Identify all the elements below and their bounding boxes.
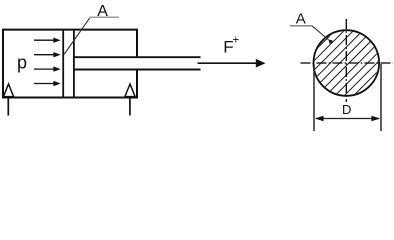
dimension arrow left — [315, 116, 324, 121]
vertical centerline (dash-dot) — [345, 19, 347, 102]
svg-text:A: A — [296, 11, 306, 28]
area label A (circle): leader — [312, 26, 331, 42]
pressure arrow 2 — [34, 52, 61, 57]
area label A (circle): underline — [290, 25, 312, 27]
svg-text:D: D — [342, 102, 351, 117]
right support shaft — [129, 97, 131, 115]
svg-text:p: p — [17, 53, 27, 73]
left support shaft — [7, 97, 9, 115]
piston area label A (left figure): underline — [90, 16, 120, 18]
cylinder body outline (with gap in right wall for rod) — [3, 30, 137, 98]
piston rod (two horizontal lines, open right end) — [74, 56, 201, 58]
piston (two vertical plate lines) — [62, 30, 64, 98]
svg-text:A: A — [97, 3, 108, 20]
pressure arrow 4 — [34, 81, 61, 86]
dimension extension line left — [313, 64, 315, 131]
svg-text:+: + — [233, 35, 240, 47]
pressure arrow 1 — [34, 38, 61, 43]
area label A (circle): end dot — [329, 40, 333, 44]
dimension line — [316, 118, 379, 120]
piston area label A (left figure): leader diagonal — [64, 18, 90, 55]
pressure arrow 3 — [34, 66, 61, 71]
right support triangle — [125, 84, 135, 97]
force arrow F+ — [198, 59, 266, 68]
cross-section circle — [314, 30, 380, 96]
left support triangle — [3, 84, 13, 97]
horizontal centerline (dash-dot) — [301, 62, 394, 64]
dimension extension line right — [380, 64, 382, 131]
dimension arrow right — [371, 116, 380, 121]
